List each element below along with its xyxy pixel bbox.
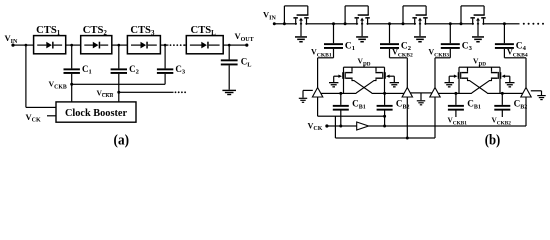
svg-text:VIN: VIN (5, 33, 18, 45)
wire CTSL to V_OUT (223, 45, 247, 46)
ground right of buffer V_CKB4 (531, 90, 542, 91)
node dot CB2 / line B (383, 125, 386, 128)
capacitor C2 (a) (111, 68, 127, 70)
wire V_DD stub (block 1) (363, 65, 364, 68)
svg-text:CB1: CB1 (467, 99, 481, 111)
svg-text:Clock Booster: Clock Booster (65, 108, 127, 119)
wire C1 bottom down to Clock Booster V_CKB output (71, 74, 72, 102)
wire C3 bottom to V_CKB3 column (450, 49, 451, 58)
svg-text:(a): (a) (114, 133, 130, 149)
node dot CB1 bottom / CK line (339, 125, 342, 128)
capacitor C2 (b) (380, 43, 399, 45)
wire C2 bottom to V_CKB2 column (389, 49, 390, 58)
wire vertical from V_IN wire down to Clock Booster input (25, 45, 26, 107)
wire CB1 block2 bottom stub (455, 111, 456, 118)
transistor M1b cross-coupled right (375, 67, 376, 72)
svg-text:C1: C1 (82, 64, 92, 76)
wire bottom-left node (block 2) (436, 93, 472, 94)
node 3 on main wire (a) (164, 44, 167, 47)
wire C2 bottom down to Clock Booster V_CKBbar output (118, 74, 119, 102)
svg-text:VCKB: VCKB (97, 88, 114, 99)
svg-text:VIN: VIN (263, 10, 276, 22)
svg-text:C3: C3 (462, 41, 473, 52)
wire bottom-right node (block 2) (487, 93, 523, 94)
transistor Q1 (b) diode-connected MOS (297, 23, 300, 26)
wire node down to C2 (b) (389, 24, 390, 43)
capacitor C3 (b) (441, 43, 460, 45)
svg-text:C2: C2 (401, 41, 412, 52)
wire V_DD stub (block 2) (479, 65, 480, 68)
rail V_CKBbar (a) (119, 92, 174, 93)
svg-text:C1: C1 (345, 41, 355, 52)
CTS cell CTS3 box (127, 36, 160, 54)
node dot buffer2 stem / bottom rail (406, 137, 409, 140)
node 1 on main wire (a) (70, 44, 73, 47)
wire V_CKB1 buffer output column (317, 58, 318, 88)
Clock Booster block (56, 102, 136, 122)
wire CKbar line A (318, 116, 385, 117)
wire V_CKB3 buffer output column (434, 58, 435, 88)
node 4 on top rail (b) (503, 22, 506, 25)
node junction C2/V_CKBbar rail (117, 91, 120, 94)
wire node down to C1 (b) (333, 24, 334, 43)
op-amp buffer V_CKB1 buffer triangle (312, 88, 322, 98)
wire V_CK into Clock Booster (47, 115, 56, 116)
CTS cell CTSL box (186, 36, 223, 54)
capacitor C_B1 (block 2) left boost cap (455, 93, 456, 105)
node 1 on top rail (b) (332, 22, 335, 25)
node 3 on top rail (b) (449, 22, 452, 25)
wire line A branch down to bottom rail (335, 116, 336, 138)
wire cross-coupling diagonal A (block 2) (468, 79, 488, 93)
diode D3 inside CTS3 (131, 45, 141, 46)
inverter triangle on CK line (357, 122, 369, 130)
svg-text:C2: C2 (129, 64, 139, 76)
svg-text:VCKB1: VCKB1 (311, 48, 332, 59)
wire node 2 down to C2 (118, 45, 119, 68)
node junction at C_L (a) (228, 44, 231, 47)
ground shared between V_CKB2 and V_CKB3 buffers (410, 92, 432, 93)
capacitor C_B2 (block 2) right boost cap (502, 93, 503, 105)
wire cross-coupling diagonal B (block 2) (472, 79, 492, 93)
wire C1 bottom to V_CKB1 column (333, 49, 334, 58)
ground at bulk of Q4 (472, 36, 484, 38)
diode D2 inside CTS2 (84, 45, 93, 46)
capacitor C_B1 (block 1) left boost cap (340, 93, 341, 105)
wire V_CK to inverter (327, 125, 357, 126)
wire V_IN to CTS1 (13, 45, 34, 46)
V_DD rail (block 1) (344, 67, 385, 68)
wire buffer1 input stem down to CKbar line A (317, 97, 318, 116)
svg-text:VCKB3: VCKB3 (428, 48, 449, 59)
wire V_CKB4 buffer output column (525, 58, 526, 88)
wire right frame vertical (block 2) (499, 67, 500, 93)
wire CB1 bottom down to CK line (340, 111, 341, 127)
wire bottom-left node (block 1) (320, 93, 356, 94)
diode D4 inside CTSL (190, 45, 202, 46)
ground at bulk of Q2 (356, 36, 368, 38)
wire inverter output line B (369, 125, 526, 126)
ground below C_L (222, 90, 236, 91)
wire junction down to C_L (229, 45, 230, 59)
wire dotted break to CTSL (184, 45, 186, 46)
wire V_CKB2 buffer output column (407, 58, 408, 88)
svg-text:VCK: VCK (26, 112, 41, 124)
transistor Q2 (b) diode-connected MOS (358, 23, 361, 26)
wire left frame vertical (block 1) (343, 67, 344, 93)
op-amp buffer V_CKB3 buffer triangle (430, 88, 440, 98)
node V_OUT terminal (245, 44, 248, 47)
svg-text:VOUT: VOUT (235, 31, 254, 43)
svg-text:VCKB2: VCKB2 (492, 116, 512, 127)
node junction at x=26 (a) (25, 44, 28, 47)
wire bottom-right node (block 1) (372, 93, 408, 94)
wire right frame vertical (block 1) (384, 67, 385, 93)
ground at bulk of M1b (394, 76, 395, 82)
transistor Q3 (b) diode-connected MOS (416, 23, 419, 26)
diode D1 inside CTS1 (37, 45, 46, 46)
svg-text:VCK: VCK (308, 121, 323, 132)
node dot right output (block 2) (501, 92, 504, 95)
V_DD rail (block 2) (459, 67, 500, 68)
capacitor C_L (221, 59, 238, 61)
ground at bulk of M1a (333, 76, 334, 82)
node 2 on main wire (a) (117, 44, 120, 47)
wire cross-coupling diagonal A (block 1) (352, 79, 372, 93)
node junction C1/V_CKB rail (70, 83, 73, 86)
wire CTS3 to dotted break (160, 45, 168, 46)
transistor M2a cross-coupled left (467, 67, 468, 72)
wire buffer3 input stem down to line B (434, 97, 435, 126)
CTS cell CTS2 box (81, 36, 112, 54)
wire C_L to ground (229, 65, 230, 89)
wire buffer2 input stem down to bottom rail (407, 97, 408, 138)
ground left of buffer V_CKB1 (303, 90, 313, 91)
wire C4 bottom to V_CKB4 column (504, 49, 505, 58)
dotted continuation V_CKBbar rail (175, 91, 177, 93)
svg-text:CTS2: CTS2 (83, 25, 108, 37)
ground at bulk of M2b (509, 76, 510, 82)
node dot right output (block 1) (383, 92, 386, 95)
node dot left output (block 2) (454, 92, 457, 95)
wire cross-coupling diagonal B (block 1) (356, 79, 376, 93)
svg-text:C4: C4 (516, 41, 527, 52)
capacitor C3 (a) (157, 68, 173, 70)
wire CB2 bottom down through line A to line B (384, 111, 385, 127)
CTS cell CTS1 box (34, 36, 66, 54)
wire CTS1 to CTS2 (66, 45, 81, 46)
transistor M1a cross-coupled left (351, 67, 352, 72)
svg-text:VCKB1: VCKB1 (448, 116, 468, 127)
rail V_CKB (a) (72, 84, 165, 85)
wire node down to C4 (b) (504, 24, 505, 43)
op-amp buffer V_CKB4 buffer triangle (521, 88, 531, 98)
dotted wire continuation (a) main (170, 44, 172, 46)
transistor Q4 (b) diode-connected MOS (474, 23, 477, 26)
ground at bulk of M2a (449, 76, 450, 82)
node dot left output (block 1) (339, 92, 342, 95)
wire node 3 down to C3 (165, 45, 166, 68)
svg-text:VCKB: VCKB (49, 80, 67, 91)
wire bottom rail right end up to line B (434, 126, 435, 138)
bottom rail CKbar (335, 137, 435, 138)
svg-text:CL: CL (241, 57, 252, 69)
dotted continuation top rail (b) (523, 23, 525, 25)
wire left frame vertical (block 2) (458, 67, 459, 93)
node 2 on top rail (b) (388, 22, 391, 25)
wire C3 bottom down to V_CKB rail (165, 74, 166, 85)
wire CB2 block2 bottom stub (502, 111, 503, 118)
capacitor C1 (a) (64, 68, 80, 70)
node V_CK terminal (b) (325, 124, 328, 127)
ground at bulk of Q1 (295, 36, 307, 38)
svg-text:C3: C3 (175, 64, 186, 76)
node V_IN terminal (b) (273, 22, 276, 25)
wire node 1 down to C1 (71, 45, 72, 68)
transistor M2b cross-coupled right (491, 67, 492, 72)
svg-text:CB2: CB2 (514, 99, 528, 111)
ground at bulk of Q3 (414, 36, 426, 38)
capacitor C1 (b) (324, 43, 343, 45)
node V_IN terminal (a) (11, 44, 14, 47)
top rail of (b) (274, 23, 519, 24)
capacitor C4 (b) (495, 43, 514, 45)
svg-text:CTSL: CTSL (191, 25, 217, 37)
op-amp buffer V_CKB2 buffer triangle (402, 88, 412, 98)
capacitor C_B2 (block 1) right boost cap (384, 93, 385, 105)
svg-text:CB1: CB1 (352, 99, 366, 111)
svg-text:CTS1: CTS1 (36, 25, 61, 37)
svg-text:CTS3: CTS3 (130, 25, 155, 37)
wire line B right end up to buffer4 stem (525, 97, 526, 126)
svg-text:(b): (b) (485, 133, 501, 149)
wire node down to C3 (b) (450, 24, 451, 43)
node dot line A / CB2 (383, 115, 386, 118)
wire CTS2 to CTS3 (112, 45, 128, 46)
